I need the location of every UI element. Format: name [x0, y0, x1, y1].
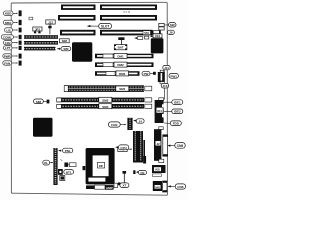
- label PW with arrow to power connector: [142, 71, 156, 76]
- svg-text:MX: MX: [155, 185, 160, 189]
- connector edge bottom-right: [163, 181, 167, 192]
- label FD with arrow: [118, 147, 132, 152]
- label J11: [163, 65, 170, 71]
- DIMM socket 3: [95, 71, 140, 76]
- battery BT1: [58, 169, 74, 175]
- label IDE1 outside: [164, 100, 183, 105]
- crystal Y1 with label: [114, 37, 127, 50]
- svg-text:PW: PW: [144, 72, 149, 76]
- svg-text:PW1: PW1: [170, 74, 177, 78]
- label SW1: [165, 23, 177, 28]
- label J13 with leader down: [161, 83, 169, 99]
- svg-text:STA: STA: [144, 31, 149, 35]
- label IDE2 outside: [164, 109, 183, 114]
- ISA slot row 3 left: [60, 30, 96, 36]
- IDE connector 1: [155, 98, 164, 123]
- label KB BIOS with arrow: [150, 34, 162, 38]
- svg-text:J2: J2: [156, 142, 160, 146]
- svg-text:COM1: COM1: [3, 35, 12, 39]
- ISA slot row 1 right: [100, 5, 157, 10]
- svg-text:CPU: CPU: [120, 146, 126, 150]
- svg-text:J12: J12: [48, 20, 53, 24]
- ISA slot row 2 right: [100, 15, 157, 21]
- svg-text:FDD: FDD: [173, 122, 180, 126]
- connector USB label: [5, 28, 22, 33]
- svg-text:KL: KL: [44, 161, 48, 165]
- svg-text:CN9: CN9: [177, 144, 184, 148]
- floppy connector 2: [154, 127, 164, 163]
- SIMM30 socket 2: [24, 41, 58, 45]
- label CPU: [115, 145, 129, 150]
- below-socket row: bar, box, AMP label: [86, 182, 120, 190]
- svg-text:J11: J11: [164, 66, 169, 70]
- chipset U1: [72, 42, 92, 62]
- svg-text:US: US: [6, 28, 10, 32]
- svg-text:J9: J9: [169, 31, 173, 35]
- SIMM72 socket A: [64, 85, 152, 92]
- switch block SW1: [159, 23, 164, 30]
- label J4 with arrow left: [133, 119, 144, 124]
- svg-text:PWR: PWR: [4, 54, 12, 58]
- svg-text:SIM: SIM: [62, 39, 68, 43]
- svg-text:ID1: ID1: [157, 109, 162, 113]
- CPU socket U5: [86, 148, 115, 184]
- svg-text:FAN: FAN: [4, 61, 10, 65]
- connector COM1 label: [1, 35, 21, 40]
- flash BIOS MX chip: [153, 181, 162, 191]
- svg-text:SW: SW: [170, 23, 175, 27]
- svg-text:CO2: CO2: [5, 41, 11, 45]
- label FAN with arrow right: [108, 122, 125, 127]
- SIMM30 label a: [59, 39, 69, 43]
- label KEYLK: [43, 160, 53, 165]
- svg-text:DM3: DM3: [119, 72, 126, 76]
- power connector PW1: [158, 70, 165, 84]
- svg-text:DM1: DM1: [117, 55, 124, 59]
- svg-text:IT4 B: IT4 B: [123, 10, 130, 14]
- board outline: [11, 2, 167, 195]
- svg-text:BAT: BAT: [118, 46, 124, 50]
- cap C5 left of socket: [83, 166, 86, 170]
- label FDD outside: [164, 121, 181, 126]
- svg-text:MSE: MSE: [5, 21, 12, 25]
- svg-text:U10: U10: [155, 34, 161, 38]
- label COM outside: [168, 143, 186, 149]
- SIMM72 socket C: [57, 104, 152, 109]
- left port connector group: [1, 10, 21, 65]
- svg-text:J13: J13: [162, 84, 167, 88]
- svg-text:CN8: CN8: [177, 185, 183, 189]
- label PANEL arrow left: [58, 148, 73, 153]
- jumper J5 with label: [133, 170, 146, 175]
- label J9: [168, 30, 175, 35]
- ISA slot row 2 left: [58, 15, 96, 21]
- speaker jumper: [60, 159, 76, 167]
- svg-text:KBD: KBD: [5, 12, 12, 16]
- SIMM72 socket B: [57, 97, 152, 102]
- ISA slot row 3 right: [100, 30, 153, 36]
- svg-text:FN: FN: [140, 171, 144, 175]
- connector J8: [152, 31, 161, 34]
- svg-text:BT1: BT1: [66, 170, 72, 174]
- connector COM2 label: [4, 41, 22, 45]
- connector LPT label: [4, 46, 22, 50]
- DIMM socket 1: [95, 53, 154, 58]
- svg-text:ZIF: ZIF: [99, 164, 104, 168]
- svg-text:IDE2: IDE2: [174, 110, 181, 114]
- svg-text:SLOT: SLOT: [101, 25, 110, 29]
- svg-text:DM2: DM2: [117, 63, 124, 67]
- ISA slot row 1 left: [61, 5, 96, 10]
- svg-text:AMP: AMP: [106, 186, 113, 190]
- jumper J6 with arrow: [134, 36, 148, 39]
- svg-text:FAN: FAN: [111, 123, 118, 127]
- crystal Y2 with label: [120, 171, 129, 188]
- svg-text:XT: XT: [122, 184, 126, 188]
- chipset U3: [33, 118, 53, 137]
- svg-text:J4: J4: [139, 119, 143, 123]
- label SIMM with arrow: [34, 99, 50, 104]
- floppy header FD1: [133, 131, 146, 164]
- connector FAN label: [3, 61, 22, 66]
- connector J-KB label: [4, 10, 22, 16]
- SIMM30 label b: [57, 47, 71, 51]
- SIMM30 socket 3: [24, 47, 56, 51]
- svg-text:LPT: LPT: [5, 46, 11, 50]
- jumper JP1 label with stem: [46, 20, 55, 34]
- header J14 small: [127, 118, 132, 130]
- jumper JP8: [60, 176, 65, 181]
- jumper JP2 label with legs: [33, 27, 42, 33]
- front panel header strip: [53, 148, 57, 185]
- svg-text:SIM: SIM: [63, 47, 69, 51]
- svg-text:PNL: PNL: [65, 149, 71, 153]
- label PWR outside: [169, 74, 178, 79]
- DIMM socket 2: [95, 62, 154, 67]
- svg-text:SM3: SM3: [102, 105, 109, 109]
- svg-text:JP2: JP2: [35, 27, 41, 31]
- edge connector bracket: [163, 135, 168, 156]
- SIMM30 socket 1: [24, 35, 58, 39]
- keyboard controller chip U9: [152, 165, 166, 176]
- svg-text:IDE1: IDE1: [174, 101, 181, 105]
- svg-text:SM2: SM2: [102, 98, 109, 102]
- label CN8 outside bottom: [168, 184, 186, 189]
- connector PWR label: [3, 54, 22, 59]
- keyboard controller U2: [151, 38, 164, 53]
- connector J-MS label: [4, 20, 22, 25]
- svg-text:SIM: SIM: [36, 100, 42, 104]
- small part near left ports: [29, 17, 33, 20]
- slot label callout: [87, 23, 112, 28]
- svg-text:SM1: SM1: [119, 87, 126, 91]
